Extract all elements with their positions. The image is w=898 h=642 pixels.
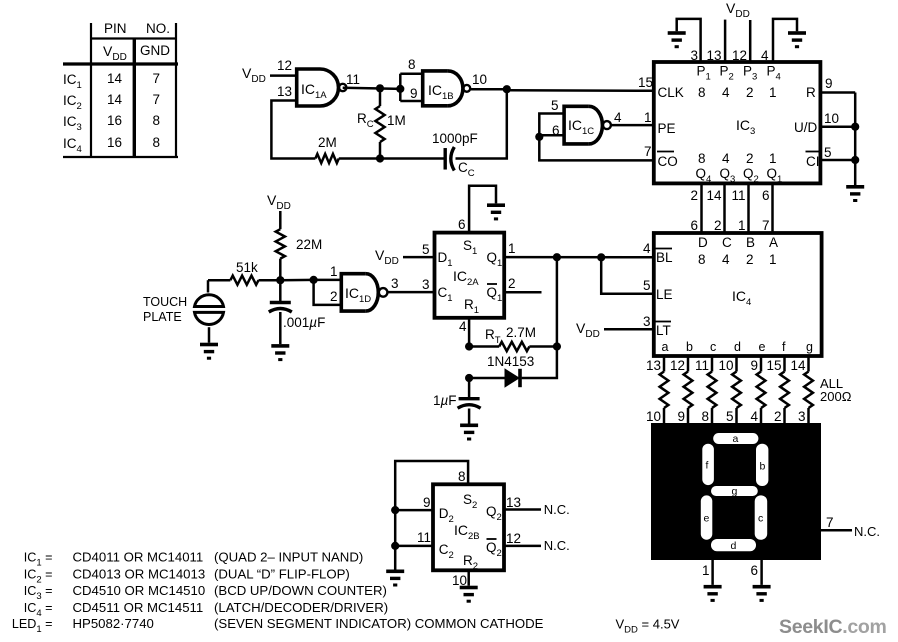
svg-text:g: g [806, 340, 813, 354]
svg-text:CD4013 OR MC14013: CD4013 OR MC14013 [73, 566, 206, 581]
svg-text:200Ω: 200Ω [820, 389, 852, 404]
svg-text:f: f [706, 460, 709, 472]
svg-text:.001µF: .001µF [283, 315, 325, 330]
svg-text:1µF: 1µF [433, 393, 457, 408]
svg-text:N.C.: N.C. [544, 538, 570, 553]
svg-text:PLATE: PLATE [143, 310, 182, 324]
svg-text:14: 14 [107, 71, 123, 86]
wire IC1D output to IC2A C1 [387, 291, 434, 294]
wire RT node up to Q1 [556, 257, 559, 346]
svg-text:c: c [758, 513, 763, 525]
IC3 top pin wires and supplies [668, 0, 806, 63]
resistor 2M [315, 135, 445, 163]
svg-text:15: 15 [766, 358, 781, 373]
svg-text:7: 7 [826, 515, 834, 530]
svg-text:A: A [769, 235, 778, 250]
svg-text:13: 13 [707, 48, 722, 63]
svg-text:1: 1 [644, 110, 652, 125]
svg-text:8: 8 [698, 151, 706, 166]
svg-text:10: 10 [646, 409, 661, 424]
svg-text:10: 10 [472, 72, 487, 87]
IC2B pin10 ground [452, 570, 478, 602]
segment a [713, 433, 758, 444]
svg-text:d: d [734, 340, 741, 354]
wire IC1D input box [314, 279, 342, 282]
svg-text:U/D: U/D [794, 120, 818, 135]
node diode-cap [465, 374, 473, 382]
svg-text:(QUAD 2– INPUT NAND): (QUAD 2– INPUT NAND) [214, 550, 363, 565]
svg-text:SeekIC.com: SeekIC.com [779, 616, 887, 638]
svg-text:3: 3 [643, 314, 651, 329]
svg-text:1: 1 [330, 264, 338, 279]
IC4 labels [643, 235, 813, 354]
gate IC1C NAND [551, 98, 622, 144]
svg-text:6: 6 [690, 218, 698, 233]
display pin 1 ground [702, 560, 722, 602]
IC2A S1 wire to ground [458, 186, 505, 233]
svg-text:1: 1 [738, 218, 746, 233]
svg-text:8: 8 [458, 469, 466, 484]
svg-text:2: 2 [774, 409, 782, 424]
svg-text:13: 13 [646, 358, 661, 373]
svg-text:9: 9 [410, 86, 418, 101]
IC U-IC3 BCD up/down counter box [654, 62, 821, 183]
wire node down to ground [394, 510, 397, 569]
svg-text:8: 8 [701, 409, 709, 424]
node C2 [391, 542, 399, 550]
svg-text:c: c [710, 340, 716, 354]
svg-text:12: 12 [277, 58, 292, 73]
node IC1B input [396, 85, 404, 93]
IC U-IC2B D flip-flop box [433, 484, 504, 570]
svg-text:11: 11 [417, 530, 431, 545]
svg-text:10: 10 [718, 358, 733, 373]
segment e [701, 495, 713, 539]
wire Q2bar N.C. [504, 531, 570, 553]
wire IC1C output to PE [611, 124, 654, 127]
svg-text:CLK: CLK [658, 85, 684, 100]
wire IC1B input box [399, 74, 402, 101]
svg-text:N.C.: N.C. [854, 524, 880, 539]
display pin 7 N.C. [821, 515, 880, 539]
svg-text:PIN: PIN [104, 21, 127, 36]
IC U-IC2A D flip-flop box [435, 233, 505, 318]
segment c [755, 495, 768, 539]
svg-text:11: 11 [731, 188, 745, 203]
svg-text:LT: LT [656, 323, 671, 338]
svg-text:R: R [806, 85, 816, 100]
svg-text:51k: 51k [236, 260, 258, 275]
VDD supply label for IC1A pin 12 [242, 65, 297, 85]
svg-text:CO: CO [658, 154, 678, 169]
svg-text:3: 3 [422, 277, 430, 292]
svg-text:2: 2 [508, 276, 516, 291]
svg-text:4: 4 [459, 319, 467, 334]
svg-text:CD4511 OR MC14511: CD4511 OR MC14511 [73, 600, 204, 615]
gate IC1B NAND [408, 57, 487, 106]
svg-text:9: 9 [423, 495, 431, 510]
svg-text:6: 6 [762, 188, 770, 203]
wire Q2 N.C. [504, 495, 570, 517]
IC U-IC4 latch/decoder/driver box [654, 233, 822, 356]
svg-text:4: 4 [761, 48, 769, 63]
svg-text:(DUAL “D” FLIP-FLOP): (DUAL “D” FLIP-FLOP) [214, 566, 350, 581]
svg-text:PE: PE [658, 121, 676, 136]
wire IC1A output to node [343, 88, 401, 89]
svg-text:4: 4 [750, 409, 758, 424]
node Q1-RT [553, 253, 561, 261]
node at IC1A output / RC top [376, 84, 384, 92]
svg-text:D: D [698, 235, 708, 250]
svg-text:8: 8 [153, 135, 161, 150]
svg-text:4: 4 [614, 110, 622, 125]
svg-text:1M: 1M [387, 113, 406, 128]
svg-text:7: 7 [153, 92, 161, 107]
segment letters [704, 433, 766, 552]
svg-text:e: e [759, 340, 766, 354]
wire Q1bar stub [504, 291, 541, 294]
svg-text:5: 5 [726, 409, 734, 424]
svg-text:(SEVEN SEGMENT INDICATOR) COMM: (SEVEN SEGMENT INDICATOR) COMMON CATHODE [214, 616, 544, 631]
node touch input [276, 276, 284, 284]
svg-text:3: 3 [798, 409, 806, 424]
wire D2 [395, 509, 433, 512]
svg-text:NO.: NO. [146, 21, 170, 36]
svg-text:8: 8 [153, 113, 161, 128]
svg-text:6: 6 [458, 217, 466, 232]
svg-text:TOUCH: TOUCH [143, 295, 187, 309]
svg-text:9: 9 [677, 409, 685, 424]
svg-text:d: d [731, 540, 737, 552]
svg-text:1: 1 [769, 252, 777, 267]
svg-text:(LATCH/DECODER/DRIVER): (LATCH/DECODER/DRIVER) [214, 600, 388, 615]
node D2 [391, 506, 399, 514]
svg-text:9: 9 [825, 76, 833, 91]
svg-text:1000pF: 1000pF [432, 131, 478, 146]
svg-text:15: 15 [638, 75, 653, 90]
LED1 seven segment display body [651, 423, 821, 560]
svg-text:BL: BL [656, 250, 673, 265]
wire CO feedback [539, 137, 654, 161]
svg-text:4: 4 [722, 151, 730, 166]
svg-text:N.C.: N.C. [544, 502, 570, 517]
node RT right [553, 342, 561, 350]
svg-text:4: 4 [643, 241, 651, 256]
touch plate electrode [143, 280, 224, 360]
svg-text:3: 3 [691, 48, 699, 63]
svg-text:2M: 2M [318, 135, 337, 150]
svg-text:e: e [704, 513, 710, 525]
svg-text:2.7M: 2.7M [506, 325, 536, 340]
svg-text:3: 3 [391, 276, 399, 291]
VDD supply for 22M [267, 192, 291, 229]
wire node down to CC [456, 89, 507, 158]
svg-text:b: b [686, 340, 693, 354]
svg-text:22M: 22M [296, 237, 322, 252]
node RC bottom [376, 154, 384, 162]
svg-text:1: 1 [508, 241, 516, 256]
svg-text:b: b [760, 461, 766, 473]
capacitor CC 1000pF [432, 131, 478, 179]
svg-text:LE: LE [656, 287, 673, 302]
capacitor .001uF [269, 280, 326, 361]
svg-text:7: 7 [762, 218, 770, 233]
svg-text:12: 12 [506, 531, 521, 546]
svg-text:2: 2 [330, 289, 338, 304]
svg-text:13: 13 [506, 495, 521, 510]
wire IC1C input box [539, 114, 564, 137]
wire RT node down to diode [522, 347, 557, 379]
svg-text:CI: CI [806, 154, 820, 169]
wire Q1 to IC4 BL [504, 256, 654, 259]
VDD supply for LT [576, 320, 654, 340]
svg-text:1: 1 [769, 85, 777, 100]
diode 1N4153 [469, 354, 534, 387]
resistor 51k [208, 260, 280, 285]
svg-text:5: 5 [643, 278, 651, 293]
IC3 right side wires R U/D CI to ground [820, 93, 864, 203]
svg-text:16: 16 [107, 135, 122, 150]
svg-text:(BCD UP/DOWN COUNTER): (BCD UP/DOWN COUNTER) [214, 583, 387, 598]
svg-text:4: 4 [722, 85, 730, 100]
bus wires IC3 Q outputs to IC4 inputs [690, 183, 772, 233]
svg-text:12: 12 [670, 358, 685, 373]
svg-text:14: 14 [790, 358, 806, 373]
svg-text:1: 1 [702, 563, 710, 578]
segment b [756, 444, 768, 486]
pin number table [63, 21, 178, 157]
wire node to LE [601, 257, 654, 294]
parts list text [12, 550, 544, 636]
svg-text:11: 11 [695, 358, 709, 373]
svg-text:7: 7 [153, 71, 161, 86]
IC2A labels [422, 238, 516, 334]
svg-text:5: 5 [422, 242, 430, 257]
svg-text:CD4011 OR MC14011: CD4011 OR MC14011 [73, 550, 204, 565]
svg-text:g: g [732, 486, 738, 498]
svg-text:GND: GND [140, 43, 170, 58]
node Q1-LE [597, 253, 605, 261]
svg-text:C: C [722, 235, 732, 250]
svg-text:2: 2 [746, 252, 754, 267]
svg-text:8: 8 [698, 85, 706, 100]
svg-text:16: 16 [107, 113, 122, 128]
svg-text:6: 6 [751, 563, 759, 578]
svg-text:13: 13 [277, 84, 292, 99]
svg-text:14: 14 [107, 92, 123, 107]
svg-text:2: 2 [714, 218, 722, 233]
wire IC1B output to CLK node [470, 88, 507, 91]
svg-text:5: 5 [824, 145, 832, 160]
node IC1D input [310, 276, 318, 284]
resistor RT 2.7M [469, 325, 557, 351]
svg-text:f: f [782, 340, 786, 354]
svg-text:1: 1 [769, 151, 777, 166]
wire CLK to IC3 [507, 89, 654, 92]
wire IC2A R1 down [468, 318, 471, 347]
svg-text:5: 5 [551, 98, 559, 113]
svg-text:1N4153: 1N4153 [487, 354, 534, 369]
svg-text:7: 7 [644, 144, 652, 159]
node pin10 [503, 85, 511, 93]
op IC1A NAND gate [277, 58, 360, 106]
segment g [711, 486, 758, 496]
capacitor 1uF [433, 378, 481, 441]
svg-text:8: 8 [698, 252, 706, 267]
resistor array 7x 200ohm [646, 356, 852, 424]
gate IC1D NAND [330, 264, 399, 311]
svg-text:a: a [662, 340, 669, 354]
svg-text:8: 8 [408, 57, 416, 72]
VDD supply for D1 [375, 247, 435, 267]
node R1 [465, 342, 473, 350]
node IC1C inputs [535, 133, 543, 141]
svg-text:2: 2 [690, 188, 698, 203]
svg-text:2: 2 [746, 85, 754, 100]
svg-text:14: 14 [706, 188, 722, 203]
svg-text:a: a [733, 433, 739, 445]
svg-text:2: 2 [746, 151, 754, 166]
segment d [711, 539, 756, 551]
wire IC1A pin13 feedback [271, 101, 315, 159]
segment f [702, 444, 714, 485]
display pin 6 ground [751, 560, 771, 602]
IC3 inside labels [638, 64, 839, 186]
svg-text:12: 12 [732, 48, 747, 63]
resistor RC 1M [357, 88, 406, 158]
svg-text:B: B [746, 235, 755, 250]
resistor 22M [276, 229, 323, 280]
svg-text:9: 9 [750, 358, 758, 373]
IC2B S2 wire loop [395, 461, 468, 510]
wire C2 [395, 545, 433, 548]
svg-text:HP5082·7740: HP5082·7740 [73, 616, 154, 631]
svg-text:11: 11 [346, 72, 360, 87]
svg-text:CD4510 OR MC14510: CD4510 OR MC14510 [73, 583, 206, 598]
IC2B labels [417, 492, 502, 572]
wire junction to IC1D [280, 279, 313, 282]
svg-text:4: 4 [722, 252, 730, 267]
svg-text:10: 10 [824, 111, 839, 126]
